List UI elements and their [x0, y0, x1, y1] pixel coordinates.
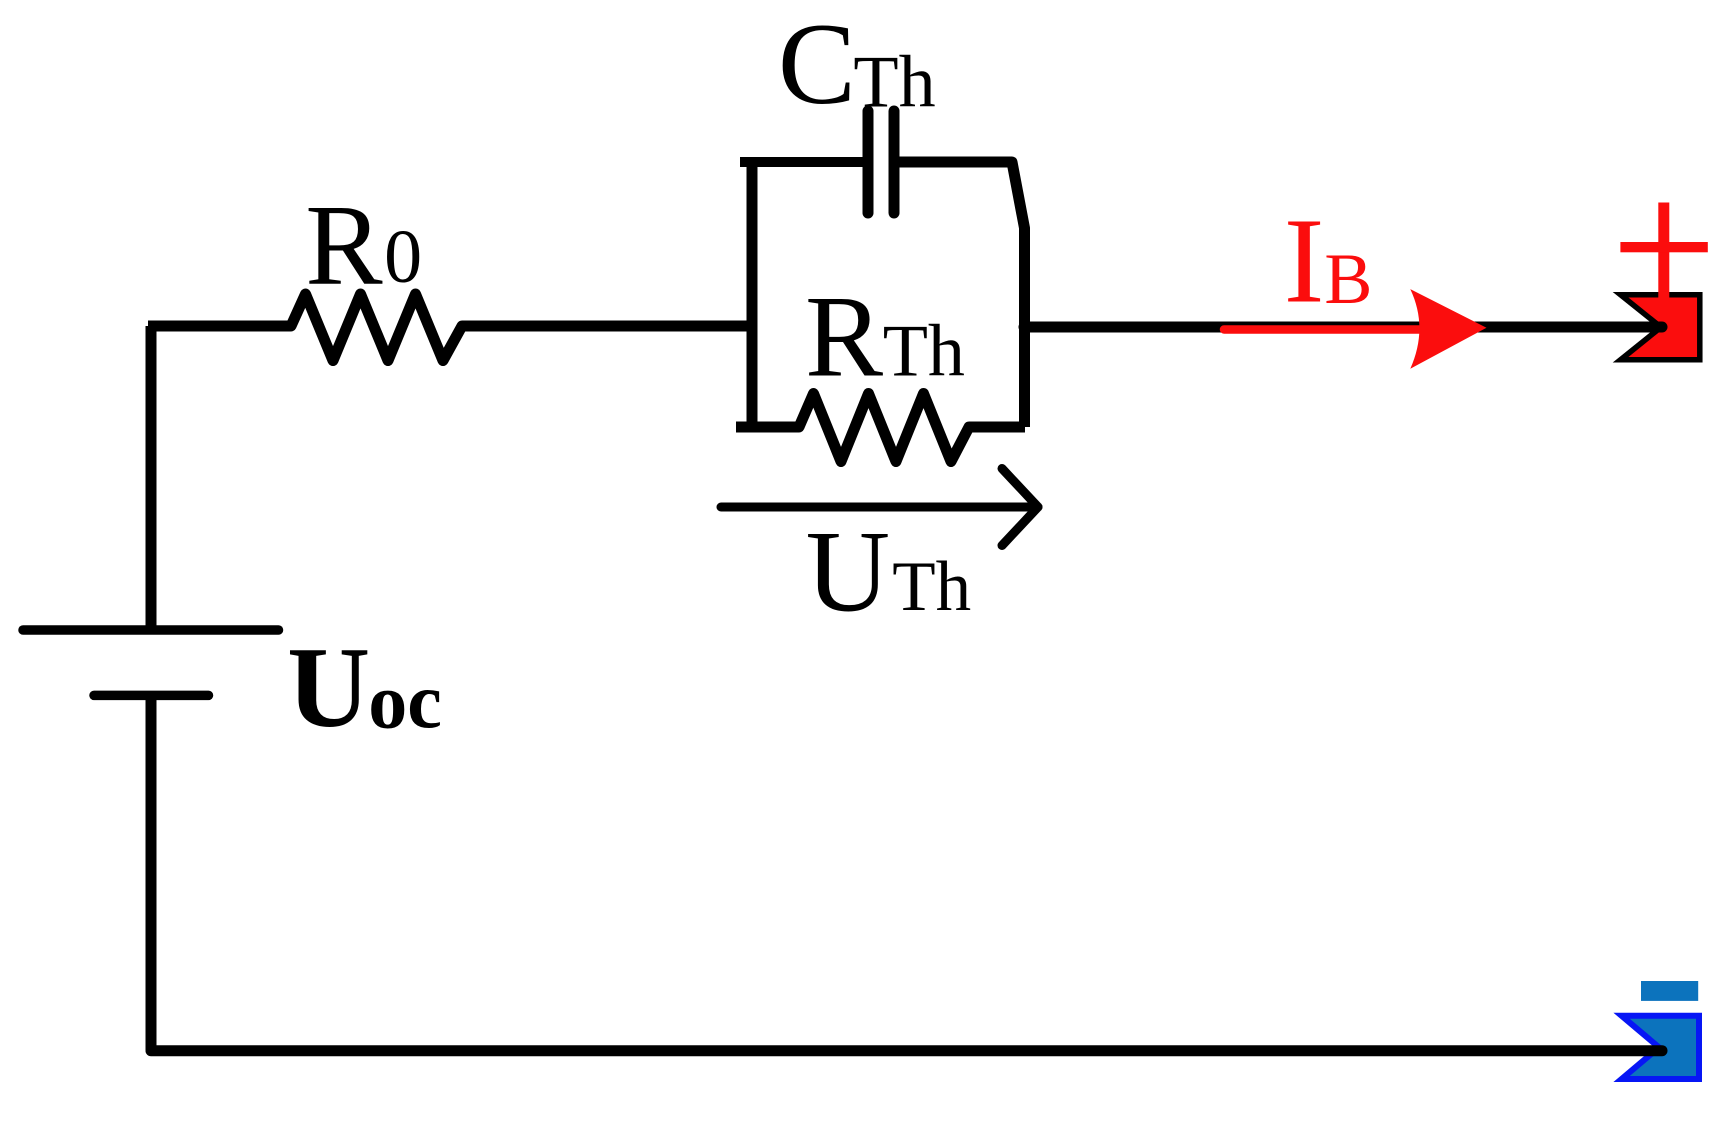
wire top rail output segment (box to terminal) — [1024, 322, 1662, 333]
svg-text:U: U — [287, 624, 370, 751]
svg-text:U: U — [806, 508, 891, 637]
svg-text:Th: Th — [892, 548, 971, 626]
svg-text:B: B — [1324, 239, 1372, 319]
wire top rail middle segment — [462, 321, 752, 332]
svg-text:C: C — [778, 0, 856, 129]
svg-text:R: R — [305, 181, 383, 309]
negative terminal (blue flag) — [1622, 1016, 1699, 1079]
capacitor C_Th left plate — [863, 111, 874, 213]
capacitor C_Th right plate — [889, 111, 900, 213]
wire box bottom left segment — [736, 422, 799, 433]
resistor R_Th — [799, 394, 969, 462]
wire top rail left segment — [148, 321, 291, 332]
positive terminal (red flag) — [1621, 295, 1700, 360]
svg-text:Th: Th — [853, 42, 935, 124]
svg-text:oc: oc — [368, 658, 442, 745]
svg-text:I: I — [1284, 194, 1325, 329]
positive terminal plus sign — [1658, 203, 1669, 298]
arrow U_Th shaft — [721, 503, 1038, 512]
node parallel-box left vertical — [747, 162, 758, 427]
svg-text:0: 0 — [384, 215, 422, 299]
svg-text:Th: Th — [883, 310, 965, 392]
resistor R0 — [291, 294, 462, 361]
current I_B red arrowhead — [1410, 289, 1486, 369]
svg-text:R: R — [805, 272, 883, 401]
arrow U_Th head chevron — [1002, 469, 1038, 546]
wire box bottom right segment — [969, 422, 1025, 433]
wire left vertical lower (battery - to bottom rail) — [146, 695, 157, 1050]
wire bottom rail — [151, 1045, 1662, 1056]
negative terminal minus sign — [1641, 981, 1698, 1001]
wire box top right segment with chamfer — [896, 162, 1025, 427]
battery U_oc top plate — [23, 625, 279, 635]
current I_B red line — [1224, 325, 1462, 334]
wire box top left segment — [740, 157, 866, 167]
battery U_oc bottom plate — [94, 691, 209, 701]
wire left vertical upper (battery + to top rail) — [146, 326, 157, 630]
